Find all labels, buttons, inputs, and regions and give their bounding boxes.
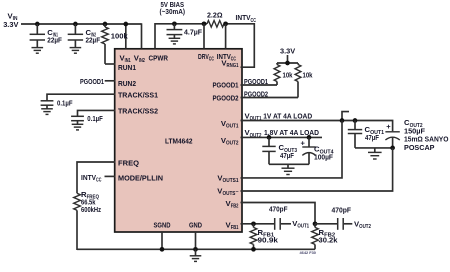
wire 100k to RUN1 pin [105, 63, 116, 65]
junction SGND bus [160, 247, 165, 252]
wire VOUTS- sense to COUT2 bottom [241, 148, 393, 191]
resistor 10k PGOOD1 pull-up [276, 63, 278, 65]
svg-text:470pF: 470pF [269, 204, 288, 213]
junction VIN-CIN2 [73, 22, 78, 27]
resistor 2.2 ohm [207, 21, 224, 28]
ground below TRACK/SS1 cap [41, 109, 53, 115]
resistor RFB1 90.9k [253, 224, 255, 228]
svg-text:TRACK/SS2: TRACK/SS2 [118, 106, 158, 115]
wire 5V rail right segment to VRNG1 [224, 24, 254, 67]
svg-text:3.3V: 3.3V [280, 47, 296, 56]
capacitor CIN1 22uF [36, 24, 38, 34]
svg-text:2.2Ω: 2.2Ω [207, 10, 223, 19]
junction VOUT2 COUT4 [307, 135, 312, 140]
svg-text:+: + [386, 122, 391, 131]
capacitor COUT4 100uF polarized [308, 137, 310, 147]
junction GND bus [193, 247, 198, 252]
wire VIN1 drop to pin [125, 24, 127, 49]
capacitor COUT2 150uF polarized [385, 132, 399, 140]
resistor RFREQ 66.5k [74, 193, 81, 210]
junction COUT2 bottom to sense [390, 146, 395, 151]
wire PGOOD1 label to RUN2 pin [105, 80, 116, 82]
wire DRVCC drop [203, 24, 205, 49]
svg-text:3.3V: 3.3V [3, 20, 19, 29]
svg-text:22µF: 22µF [86, 36, 101, 45]
svg-text:GND: GND [189, 220, 202, 229]
svg-text:90.9k: 90.9k [258, 235, 279, 244]
svg-text:FREQ: FREQ [118, 158, 139, 167]
ground below CIN2 [70, 48, 82, 54]
wire 470pF to VOUT1 label [281, 223, 291, 225]
svg-text:10k: 10k [303, 71, 314, 80]
svg-text:30.2k: 30.2k [319, 235, 339, 244]
svg-text:47µF: 47µF [280, 151, 294, 160]
svg-text:TRACK/SS1: TRACK/SS1 [118, 90, 159, 99]
wire VOUTS1 sense hook [342, 112, 349, 121]
wire COUT1 COUT2 bottom [355, 147, 393, 149]
op-amp U1 LTM4642 module body [115, 49, 242, 232]
wire TRACK/SS2 to cap [78, 110, 116, 116]
junction DRVCC [202, 21, 207, 26]
wire 470pF to VOUT2 label [344, 223, 352, 225]
svg-text:4.7µF: 4.7µF [184, 27, 202, 36]
wire VIN2 drop to pin [141, 23, 143, 48]
svg-text:PGOOD2: PGOOD2 [213, 93, 239, 102]
svg-text:MODE/PLLIN: MODE/PLLIN [118, 173, 163, 182]
svg-text:+: + [301, 139, 306, 148]
svg-text:100k: 100k [111, 31, 129, 40]
junction INTVCC pin drop [223, 21, 228, 26]
wire pull-up top bar [277, 62, 298, 64]
svg-text:0.1µF: 0.1µF [87, 114, 103, 123]
wire INTVCC drop [225, 24, 227, 49]
resistor 10k PGOOD2 pull-up [297, 63, 299, 65]
wire ground bus [77, 248, 315, 250]
ground below CIN1 [32, 48, 44, 54]
svg-text:(~30mA): (~30mA) [160, 7, 186, 16]
svg-text:PGOOD1: PGOOD1 [213, 80, 240, 89]
wire SGND drop [161, 232, 163, 249]
wire VIN rail [21, 23, 142, 25]
wire VFB1 to divider [241, 223, 275, 225]
svg-text:CPWR: CPWR [149, 54, 169, 63]
wire VFB2 node to 470pF [315, 223, 337, 225]
wire 3.3V stub [287, 55, 289, 63]
ground below 4.7uF [169, 38, 181, 44]
svg-text:22µF: 22µF [47, 36, 62, 45]
junction VFB2 RFB2 [313, 221, 318, 226]
wire PGOOD1 pin to pull-up [241, 84, 278, 86]
capacitor 0.1uF on TRACK/SS2 [71, 116, 84, 120]
wire FREQ pin to RFREQ [77, 162, 116, 193]
resistor 100k RUN pull-up [104, 24, 106, 27]
svg-text:600kHz: 600kHz [81, 205, 101, 214]
wire COUT3 COUT4 bottom [269, 163, 309, 165]
junction VOUT1 sense [340, 118, 345, 123]
junction VFB1 RFB1 [251, 221, 256, 226]
wire VFB2 to divider [241, 203, 316, 224]
ground below TRACK/SS2 cap [72, 124, 84, 130]
junction VOUT2 COUT3 [267, 135, 272, 140]
svg-text:PGOOD1: PGOOD1 [80, 77, 105, 86]
svg-text:0.1µF: 0.1µF [57, 99, 73, 108]
wire VOUTS1 sense [241, 121, 343, 178]
junction 3.3V bar [285, 61, 290, 66]
svg-text:POSCAP: POSCAP [404, 143, 435, 152]
svg-text:RUN2: RUN2 [118, 79, 136, 88]
wire TRACK/SS1 to cap [47, 94, 116, 101]
junction VIN-VIN1 [123, 22, 128, 27]
capacitor CIN2 22uF [74, 24, 76, 34]
capacitor 470pF feedforward VOUT1 [275, 218, 281, 230]
svg-text:1.8V AT 4A LOAD: 1.8V AT 4A LOAD [264, 128, 319, 137]
capacitor 470pF feedforward VOUT2 [338, 218, 344, 230]
ground below COUT3/COUT4 [287, 164, 289, 168]
svg-text:47µF: 47µF [365, 133, 379, 142]
wire 5V BIAS rail left segment [155, 24, 207, 49]
svg-text:PGOOD1: PGOOD1 [244, 77, 269, 86]
svg-text:4642 F30: 4642 F30 [300, 250, 316, 255]
svg-text:PGOOD2: PGOOD2 [244, 90, 268, 99]
ground below COUT1/COUT2 [374, 148, 376, 153]
svg-text:SGND: SGND [154, 220, 171, 229]
svg-text:LTM4642: LTM4642 [165, 137, 193, 146]
ground symbol main [195, 249, 197, 256]
svg-text:10k: 10k [283, 71, 294, 80]
wire VOUT1 rail [241, 121, 393, 132]
junction VIN-CIN1 [35, 22, 40, 27]
wire VOUT2 rail [241, 136, 323, 138]
wire INTVCC label to MODE/PLLIN pin [105, 175, 116, 177]
svg-text:470pF: 470pF [332, 206, 352, 215]
junction 4.7uF [172, 21, 177, 26]
svg-text:1V AT 4A LOAD: 1V AT 4A LOAD [263, 111, 312, 120]
capacitor COUT3 47uF [268, 137, 270, 146]
resistor RFB2 30.2k [314, 224, 316, 228]
svg-text:100µF: 100µF [314, 152, 333, 161]
capacitor 0.1uF on TRACK/SS1 [41, 101, 54, 105]
capacitor COUT1 47uF [354, 121, 356, 130]
wire GND drop [195, 232, 197, 249]
junction RFB1 bus [251, 247, 256, 252]
junction VOUT1 COUT1 [353, 118, 358, 123]
junction VIN-100k [103, 22, 108, 27]
wire RFREQ to ground bus [76, 210, 78, 250]
capacitor 4.7uF bias [173, 24, 175, 30]
wire PGOOD2 pin to pull-up [241, 97, 299, 99]
svg-text:RUN1: RUN1 [118, 63, 137, 72]
